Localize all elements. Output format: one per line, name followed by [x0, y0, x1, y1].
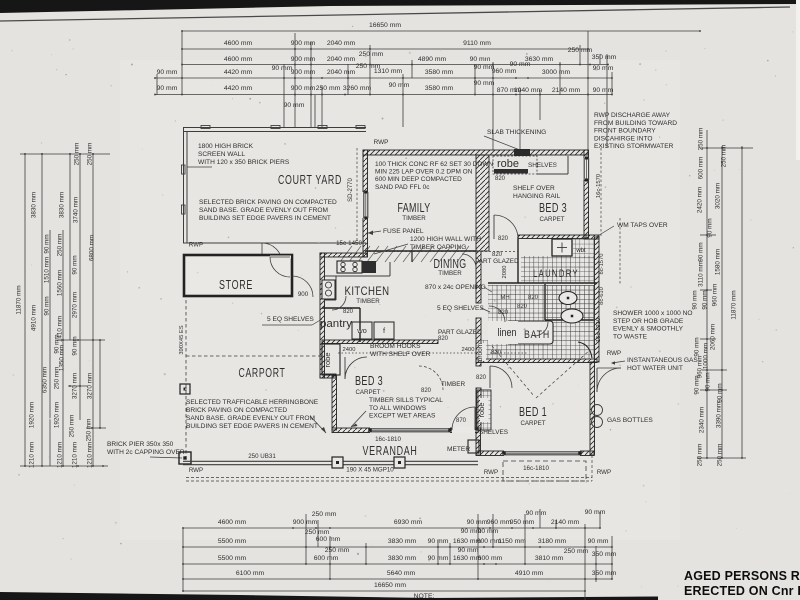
svg-text:820: 820	[495, 176, 506, 182]
svg-text:EXISTING STORMWATER: EXISTING STORMWATER	[594, 143, 674, 150]
svg-text:METER: METER	[447, 446, 470, 453]
svg-text:1200 HIGH WALL WITH: 1200 HIGH WALL WITH	[410, 236, 481, 243]
svg-text:820: 820	[492, 252, 503, 258]
scan black bottom edge	[0, 592, 658, 600]
svg-text:SELECTED TRAFFICABLE HERRINGBO: SELECTED TRAFFICABLE HERRINGBONE	[186, 399, 319, 406]
wall pantry right	[359, 308, 361, 342]
leader 1200 wall	[374, 244, 408, 254]
courtyard paving bottom edge	[183, 242, 366, 244]
svg-text:COURT YARD: COURT YARD	[278, 172, 342, 187]
svg-text:90 mm: 90 mm	[44, 234, 51, 253]
svg-text:FRONT BOUNDARY: FRONT BOUNDARY	[594, 128, 656, 135]
svg-text:90 mm: 90 mm	[284, 102, 305, 109]
svg-text:2060 mm: 2060 mm	[710, 324, 717, 350]
courtyard screen wall top	[183, 126, 366, 132]
svg-text:960 mm: 960 mm	[712, 284, 719, 307]
svg-text:3270 mm: 3270 mm	[72, 373, 79, 399]
svg-text:SHELVES: SHELVES	[528, 162, 557, 169]
svg-text:1310 mm: 1310 mm	[374, 68, 403, 75]
svg-text:TIMBER: TIMBER	[441, 381, 466, 388]
svg-text:250 mm: 250 mm	[87, 143, 94, 166]
exterior wall right bed3	[584, 150, 589, 238]
svg-text:90 mm: 90 mm	[705, 372, 712, 391]
spine wall lower	[476, 318, 481, 366]
svg-text:1040 mm: 1040 mm	[514, 87, 543, 94]
svg-text:ERECTED ON Cnr BLOCK: ERECTED ON Cnr BLOCK	[684, 584, 800, 598]
spine wall mid	[476, 251, 481, 303]
svg-text:3810 mm: 3810 mm	[535, 555, 564, 562]
svg-text:robe: robe	[497, 158, 519, 170]
svg-text:AGED PERSONS RESIDENCE: AGED PERSONS RESIDENCE	[684, 569, 800, 583]
svg-text:820: 820	[343, 309, 354, 315]
carport dashed roof line	[186, 355, 322, 357]
courtyard screen wall left	[182, 128, 188, 244]
svg-text:9110 mm: 9110 mm	[463, 40, 491, 47]
svg-text:250 mm: 250 mm	[316, 85, 341, 92]
svg-text:5 EQ SHELVES: 5 EQ SHELVES	[437, 305, 484, 312]
svg-text:4600 mm: 4600 mm	[218, 519, 247, 526]
svg-text:250 mm: 250 mm	[698, 128, 705, 151]
svg-text:900: 900	[298, 291, 309, 298]
left dim vertical lines	[25, 153, 100, 466]
svg-text:2140 mm: 2140 mm	[552, 87, 581, 94]
svg-text:3580 mm: 3580 mm	[425, 85, 454, 92]
robe bed1 shelves	[477, 390, 491, 430]
svg-text:90 mm: 90 mm	[585, 509, 606, 516]
svg-text:100 THICK CONC RF 62 SET 30 DO: 100 THICK CONC RF 62 SET 30 DOWN	[375, 161, 494, 168]
svg-text:pantry: pantry	[320, 318, 353, 330]
svg-text:250 mm: 250 mm	[57, 234, 64, 257]
svg-text:90 mm: 90 mm	[510, 61, 531, 68]
svg-text:1920 mm: 1920 mm	[29, 402, 36, 428]
svg-text:1210 mm: 1210 mm	[57, 442, 64, 468]
svg-text:900 mm: 900 mm	[293, 519, 318, 526]
svg-text:250 mm: 250 mm	[359, 51, 384, 58]
tiles wc extra	[546, 285, 594, 319]
exterior wall right laundry-bath	[595, 237, 600, 362]
svg-text:90 mm: 90 mm	[478, 528, 499, 535]
svg-text:250 mm: 250 mm	[74, 143, 81, 166]
spine wall bed1	[476, 388, 481, 430]
svg-text:DISCAHIRGE INTO: DISCAHIRGE INTO	[594, 135, 653, 142]
svg-text:90 mm: 90 mm	[44, 296, 51, 315]
hall dash line upper	[365, 251, 518, 253]
window bed1 bottom	[504, 451, 580, 457]
bed1 dashed diagonal	[492, 346, 534, 396]
svg-text:CARPET: CARPET	[539, 216, 564, 223]
left dim tick rows	[20, 153, 110, 467]
svg-text:RWP: RWP	[189, 242, 203, 249]
svg-text:RWP: RWP	[189, 467, 203, 474]
svg-text:PART GLAZED: PART GLAZED	[475, 258, 519, 265]
svg-text:900 mm: 900 mm	[291, 40, 316, 47]
svg-text:90 mm: 90 mm	[694, 375, 701, 394]
svg-text:90 mm: 90 mm	[458, 547, 479, 554]
laundry tub	[552, 239, 572, 256]
svg-text:3830 mm: 3830 mm	[31, 192, 38, 218]
svg-text:TIMBER: TIMBER	[438, 270, 462, 277]
wall laundry/bath	[488, 282, 597, 284]
svg-text:2340 mm: 2340 mm	[699, 407, 706, 433]
brick pier mid-left	[180, 384, 190, 394]
note rwp discharge	[594, 112, 677, 150]
tiles broom closet	[476, 340, 490, 359]
scan white right strip	[796, 0, 800, 160]
svg-text:FAMILY: FAMILY	[398, 200, 431, 215]
svg-text:350 mm: 350 mm	[592, 54, 617, 61]
wall family/dining	[365, 250, 476, 252]
svg-text:4910 mm: 4910 mm	[31, 305, 38, 331]
svg-text:1210 mm: 1210 mm	[87, 442, 94, 468]
svg-text:robe: robe	[477, 402, 486, 417]
svg-text:RWP: RWP	[374, 139, 389, 146]
svg-text:90 mm: 90 mm	[157, 69, 178, 76]
wall hall/laundry vertical	[517, 237, 519, 283]
svg-text:KITCHEN: KITCHEN	[345, 284, 390, 298]
svg-text:90 mm: 90 mm	[593, 65, 614, 72]
right dim vertical lines	[707, 130, 742, 458]
svg-text:250 mm: 250 mm	[69, 415, 76, 438]
svg-text:EXCEPT WET AREAS: EXCEPT WET AREAS	[369, 413, 436, 420]
svg-text:BROOM HOOKS: BROOM HOOKS	[370, 343, 421, 350]
door external gas	[597, 368, 621, 392]
tiles bath and wc	[488, 285, 595, 359]
svg-text:2080: 2080	[502, 266, 508, 279]
svg-text:950 mm: 950 mm	[510, 519, 535, 526]
svg-text:250 mm: 250 mm	[54, 367, 61, 390]
svg-text:90 mm: 90 mm	[474, 80, 495, 87]
svg-text:820: 820	[517, 304, 528, 310]
svg-text:RWP: RWP	[597, 469, 611, 476]
svg-text:1150 mm: 1150 mm	[498, 538, 526, 545]
svg-text:1580 mm: 1580 mm	[715, 249, 722, 275]
svg-text:8c-1570: 8c-1570	[599, 254, 605, 275]
rotated label broom	[479, 343, 487, 361]
store door arc	[270, 257, 290, 277]
toilet wc	[559, 292, 577, 305]
bed1 below dashed box	[503, 461, 586, 481]
courtyard note screen wall	[187, 143, 290, 167]
wall jog laundry right	[584, 235, 599, 239]
svg-text:3830 mm: 3830 mm	[388, 538, 417, 545]
sliding door dashed SD-2770	[356, 148, 358, 243]
hall dash line lower	[338, 352, 476, 354]
svg-text:820: 820	[528, 295, 539, 301]
courtyard door arc	[262, 243, 282, 263]
svg-text:1210 mm: 1210 mm	[29, 442, 36, 468]
svg-text:INSTANTANEOUS GAS: INSTANTANEOUS GAS	[627, 357, 698, 364]
svg-text:11870 mm: 11870 mm	[731, 290, 738, 319]
svg-text:SHELVES: SHELVES	[479, 429, 508, 436]
svg-text:16650 mm: 16650 mm	[369, 22, 401, 29]
svg-text:3270 mm: 3270 mm	[87, 373, 94, 399]
svg-text:NOTE:: NOTE:	[414, 593, 435, 600]
svg-text:820: 820	[421, 388, 432, 394]
svg-text:TIMBER: TIMBER	[356, 298, 380, 305]
verandah lower dashed	[186, 477, 592, 479]
tiles laundry right	[573, 238, 595, 258]
svg-text:CARPORT: CARPORT	[239, 365, 286, 380]
timber sills arrow	[351, 411, 366, 427]
svg-text:3180 mm: 3180 mm	[538, 538, 567, 545]
gas bottles circles	[592, 405, 603, 416]
dim row bottom 5500/3830/3180	[182, 528, 613, 548]
svg-text:600 mm: 600 mm	[698, 157, 705, 180]
svg-text:250 mm: 250 mm	[717, 444, 724, 467]
svg-text:5500 mm: 5500 mm	[218, 555, 247, 562]
spine wall hatched (robe bed3)	[476, 155, 489, 251]
svg-text:RWP: RWP	[484, 469, 498, 476]
dim row bottom 4600/6930/2140	[182, 509, 606, 529]
f box	[374, 322, 394, 339]
svg-text:90 mm: 90 mm	[692, 290, 699, 309]
svg-text:TO ALL WINDOWS: TO ALL WINDOWS	[369, 405, 427, 412]
verandah post 2	[394, 457, 405, 468]
svg-text:2140 mm: 2140 mm	[551, 519, 580, 526]
svg-text:SCREEN WALL: SCREEN WALL	[198, 151, 245, 158]
svg-text:WM TAPS OVER: WM TAPS OVER	[617, 222, 668, 229]
note shower	[613, 310, 693, 340]
svg-text:90 mm: 90 mm	[707, 218, 714, 237]
brick pier note	[107, 441, 185, 458]
svg-text:90 mm: 90 mm	[72, 336, 79, 355]
svg-text:PART GLAZED: PART GLAZED	[438, 329, 482, 336]
svg-text:4600 mm: 4600 mm	[224, 56, 253, 63]
svg-text:WITH 120 x 350 BRICK PIERS: WITH 120 x 350 BRICK PIERS	[198, 159, 290, 166]
dim row 16650 mm	[181, 22, 701, 32]
brick pier bottom-left	[179, 452, 191, 464]
svg-text:3110 mm: 3110 mm	[698, 261, 705, 287]
svg-text:820: 820	[476, 375, 487, 381]
svg-text:TIMBER SILLS TYPICAL: TIMBER SILLS TYPICAL	[369, 397, 443, 404]
svg-text:3830 mm: 3830 mm	[59, 192, 66, 218]
svg-text:BUILDING SET EDGE PAVERS IN CE: BUILDING SET EDGE PAVERS IN CEMENT	[199, 215, 331, 222]
svg-text:4910 mm: 4910 mm	[515, 570, 544, 577]
svg-text:HANGING RAIL: HANGING RAIL	[513, 193, 561, 200]
svg-text:600 mm: 600 mm	[314, 555, 339, 562]
door bed3 top	[494, 215, 518, 239]
dim row 4890/3630 mm	[181, 47, 616, 65]
svg-text:16c-1810: 16c-1810	[375, 436, 401, 443]
exterior wall bottom bed3	[332, 428, 478, 433]
svg-text:90 mm: 90 mm	[593, 87, 614, 94]
shower corner screen	[578, 342, 592, 358]
door dining part glazed	[462, 254, 476, 268]
svg-text:90 mm: 90 mm	[272, 65, 293, 72]
store walls	[184, 255, 292, 296]
svg-text:1210 mm: 1210 mm	[72, 442, 79, 468]
svg-text:16c-1810: 16c-1810	[523, 465, 549, 472]
svg-text:250 mm: 250 mm	[697, 444, 704, 467]
svg-text:1510 mm: 1510 mm	[44, 257, 51, 283]
svg-text:960 mm: 960 mm	[492, 68, 517, 75]
svg-text:SLAB THICKENING: SLAB THICKENING	[487, 129, 546, 136]
svg-text:90 mm: 90 mm	[698, 242, 705, 261]
store side door arc	[292, 276, 313, 297]
svg-text:90 mm: 90 mm	[717, 383, 724, 402]
verandah post 1	[332, 457, 343, 468]
svg-text:TO WASTE: TO WASTE	[613, 333, 648, 340]
dim row bottom 16650	[182, 582, 586, 592]
svg-text:900 mm: 900 mm	[291, 85, 316, 92]
toilet bath area	[561, 309, 583, 323]
svg-text:3830 mm: 3830 mm	[388, 555, 417, 562]
right dim rotated labels	[692, 128, 738, 467]
svg-text:SAND BASE. GRADE EVENLY OUT F: SAND BASE. GRADE EVENLY OUT FROM	[199, 207, 328, 214]
svg-text:250 mm: 250 mm	[86, 419, 93, 442]
tiles laundry	[521, 256, 595, 283]
bath tub	[506, 321, 553, 344]
svg-text:5500 mm: 5500 mm	[218, 538, 247, 545]
svg-text:350 mm: 350 mm	[592, 551, 617, 558]
exterior wall right bed1	[590, 362, 595, 455]
svg-text:WITH SHELF OVER: WITH SHELF OVER	[370, 351, 431, 358]
window family left wall	[363, 192, 369, 218]
svg-text:BED 1: BED 1	[519, 404, 547, 419]
svg-text:190 X 45 MGP10: 190 X 45 MGP10	[346, 467, 394, 474]
svg-text:wbt: wbt	[575, 248, 586, 254]
wall bed3 lower top	[322, 340, 438, 344]
exterior wall left bed3 lower	[332, 376, 337, 430]
svg-text:16c-1210: 16c-1210	[596, 318, 602, 342]
slab thickening block	[514, 149, 530, 156]
note shelf over	[513, 185, 561, 200]
dim row bottom 5500/3830/3810	[182, 547, 616, 565]
exterior wall bed1 left stub	[476, 428, 481, 455]
dim extension verticals top	[157, 31, 612, 152]
dim row bottom 6100/5640/4910	[182, 570, 616, 580]
door bed1	[490, 366, 512, 388]
svg-text:90 mm: 90 mm	[694, 337, 701, 356]
svg-text:90 mm: 90 mm	[702, 290, 709, 309]
svg-text:390X45 ES: 390X45 ES	[179, 325, 185, 354]
meter box	[468, 440, 479, 453]
svg-text:2420 mm: 2420 mm	[697, 187, 704, 213]
svg-text:900 mm: 900 mm	[291, 56, 316, 63]
wall laundry top	[518, 235, 586, 239]
svg-text:STEP OR HOB GRADE: STEP OR HOB GRADE	[613, 318, 684, 325]
svg-text:RWP: RWP	[607, 350, 621, 357]
svg-text:250 UB31: 250 UB31	[248, 453, 276, 460]
svg-text:CARPET: CARPET	[520, 420, 545, 427]
courtyard note paving	[199, 199, 337, 222]
svg-text:4420 mm: 4420 mm	[224, 85, 253, 92]
svg-text:SELECTED BRICK PAVING ON COMPA: SELECTED BRICK PAVING ON COMPACTED	[199, 199, 337, 206]
svg-text:11870 mm: 11870 mm	[16, 285, 23, 314]
svg-text:broom: broom	[477, 343, 484, 361]
svg-text:MIN 225 LAP OVER 0.2 DPM ON: MIN 225 LAP OVER 0.2 DPM ON	[375, 169, 473, 176]
linen closet white	[488, 321, 518, 344]
svg-text:250 mm: 250 mm	[305, 529, 330, 536]
svg-text:robe: robe	[323, 352, 332, 367]
door kitchen pantry	[332, 296, 346, 310]
exterior wall top (family/bed3)	[363, 150, 588, 155]
wo box	[352, 322, 372, 339]
svg-text:wo: wo	[356, 326, 367, 335]
shelves bed3top line	[537, 173, 568, 175]
svg-text:90 mm: 90 mm	[526, 510, 547, 517]
entry door opening	[452, 427, 475, 434]
svg-text:EVENLY & SMOOTHLY: EVENLY & SMOOTHLY	[613, 326, 684, 333]
robe bed3top box	[493, 156, 537, 174]
svg-text:4420 mm: 4420 mm	[224, 69, 253, 76]
exterior wall left family	[363, 150, 368, 257]
svg-text:820: 820	[498, 310, 509, 316]
verandah right dashed vert	[591, 455, 593, 481]
carport note arrow	[310, 416, 326, 433]
svg-text:870 x 24c OPENING: 870 x 24c OPENING	[425, 284, 486, 291]
svg-text:600 mm: 600 mm	[478, 555, 503, 562]
note broom hooks	[370, 343, 431, 358]
svg-text:1800 HIGH BRICK: 1800 HIGH BRICK	[198, 143, 254, 150]
svg-text:BED 3: BED 3	[539, 200, 567, 215]
svg-text:3260 mm: 3260 mm	[343, 85, 372, 92]
note 1200 high wall	[410, 236, 481, 251]
window bed3 right wall	[584, 158, 590, 180]
svg-text:3000 mm: 3000 mm	[542, 69, 571, 76]
dashed extension laundry right	[619, 218, 621, 284]
exterior wall jog bed3	[320, 374, 336, 378]
svg-text:3580 mm: 3580 mm	[425, 69, 454, 76]
dim extension verticals bottom	[183, 509, 612, 600]
svg-text:600 mm: 600 mm	[316, 536, 341, 543]
wall pantry top	[322, 307, 360, 309]
svg-text:linen: linen	[498, 327, 517, 339]
svg-text:VERANDAH: VERANDAH	[363, 443, 418, 458]
leader instantaneous gas	[612, 361, 625, 363]
svg-text:SAND BASE. GRADE EVENLY OUT F: SAND BASE. GRADE EVENLY OUT FROM	[186, 415, 315, 422]
svg-text:LAUNDRY: LAUNDRY	[533, 268, 579, 280]
paper lighter center	[120, 60, 680, 540]
svg-text:FUSE PANEL: FUSE PANEL	[383, 228, 424, 235]
svg-text:16650 mm: 16650 mm	[374, 582, 406, 589]
svg-text:3020 mm: 3020 mm	[715, 183, 722, 209]
svg-text:250 mm: 250 mm	[721, 145, 728, 168]
svg-text:900 mm: 900 mm	[291, 69, 316, 76]
svg-text:820: 820	[438, 336, 449, 342]
svg-text:1920 mm: 1920 mm	[54, 402, 61, 428]
kitchen stove	[337, 261, 362, 273]
svg-text:CARPET: CARPET	[355, 389, 380, 396]
svg-text:SAND PAD FFL 0c: SAND PAD FFL 0c	[375, 184, 430, 191]
door bed3 lower	[345, 357, 367, 379]
wall kitchen/dining stub	[411, 251, 413, 262]
svg-text:TIMBER CAPPING: TIMBER CAPPING	[410, 244, 466, 251]
svg-text:RWP DISCHARGE AWAY: RWP DISCHARGE AWAY	[594, 112, 671, 119]
door wc	[534, 322, 548, 336]
svg-text:820: 820	[498, 236, 509, 242]
svg-text:600 MIN DEEP COMPACTED: 600 MIN DEEP COMPACTED	[375, 176, 462, 183]
svg-text:350 mm: 350 mm	[592, 570, 617, 577]
note timber sills	[369, 397, 443, 420]
svg-text:1560 mm: 1560 mm	[57, 270, 64, 296]
svg-text:250 mm: 250 mm	[312, 511, 337, 518]
dim row 3260/2140 mm	[154, 80, 614, 95]
svg-text:HOT WATER UNIT: HOT WATER UNIT	[627, 365, 683, 372]
svg-text:BED 3: BED 3	[355, 373, 383, 388]
svg-text:250 mm: 250 mm	[325, 547, 350, 554]
svg-text:820: 820	[491, 350, 502, 356]
svg-text:1000 mm: 1000 mm	[703, 343, 710, 369]
svg-text:90 mm: 90 mm	[72, 255, 79, 274]
1200 high wall hatch strip	[340, 246, 469, 262]
svg-text:2400: 2400	[462, 347, 475, 353]
svg-text:BRICK PAVING ON COMPACTED: BRICK PAVING ON COMPACTED	[186, 407, 287, 414]
svg-text:SHOWER 1000 x 1000 NO: SHOWER 1000 x 1000 NO	[613, 310, 693, 317]
exterior wall kitchen top jog	[320, 253, 367, 257]
svg-text:BRICK PIER 350x 350: BRICK PIER 350x 350	[107, 441, 174, 448]
svg-text:870: 870	[456, 418, 467, 424]
